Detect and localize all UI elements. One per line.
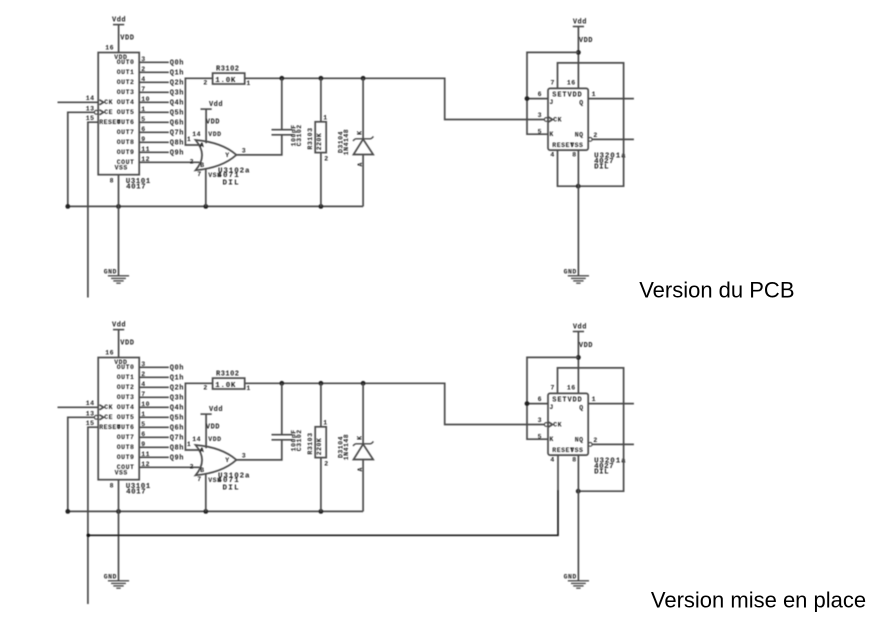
svg-text:Q4h: Q4h bbox=[170, 405, 184, 413]
svg-text:VDD: VDD bbox=[208, 131, 221, 138]
svg-text:Q0h: Q0h bbox=[170, 60, 184, 68]
svg-text:OUT1: OUT1 bbox=[117, 69, 135, 76]
power Vdd supply (U3201a) bbox=[573, 323, 593, 393]
OR gate U3102a 4071 bbox=[190, 445, 251, 493]
svg-text:Version du PCB: Version du PCB bbox=[639, 278, 794, 303]
svg-text:CE: CE bbox=[104, 414, 113, 421]
svg-text:OUT9: OUT9 bbox=[117, 149, 135, 156]
wire COUT pin12 to gate input B bbox=[139, 161, 199, 163]
svg-text:OUT8: OUT8 bbox=[117, 139, 135, 146]
wire CK pin14 stub bbox=[58, 101, 99, 103]
wire NQ pin2 stub bbox=[592, 138, 634, 140]
svg-text:CK: CK bbox=[104, 404, 113, 411]
wire Q pin1 stub bbox=[588, 403, 634, 405]
svg-text:1: 1 bbox=[592, 91, 596, 98]
svg-text:SETVDD: SETVDD bbox=[552, 397, 582, 405]
svg-text:8: 8 bbox=[572, 457, 576, 464]
resistor R3102 1.0K bbox=[203, 66, 250, 88]
svg-text:OUT5: OUT5 bbox=[117, 109, 135, 116]
svg-text:1: 1 bbox=[187, 136, 191, 143]
svg-text:OUT0: OUT0 bbox=[117, 364, 135, 371]
svg-text:OUT5: OUT5 bbox=[117, 414, 135, 421]
svg-text:A: A bbox=[200, 447, 204, 454]
wire RESET pin4 modification (black) to 4017 RESET bbox=[87, 455, 559, 537]
svg-text:4017: 4017 bbox=[126, 184, 146, 192]
wire R3102 pin2 to gate input A bbox=[185, 78, 212, 145]
svg-text:6: 6 bbox=[538, 396, 542, 403]
svg-text:14: 14 bbox=[86, 400, 95, 407]
svg-text:4: 4 bbox=[550, 152, 554, 159]
svg-text:RESET: RESET bbox=[99, 424, 121, 431]
svg-text:VDD: VDD bbox=[120, 34, 134, 42]
OR gate U3102a 4071 bbox=[190, 140, 251, 188]
ground symbol GND (4017) bbox=[104, 269, 129, 284]
svg-text:2: 2 bbox=[203, 385, 207, 392]
svg-text:GND: GND bbox=[564, 269, 577, 276]
svg-text:SETVDD: SETVDD bbox=[552, 92, 582, 100]
svg-text:K: K bbox=[549, 436, 553, 443]
svg-text:4017: 4017 bbox=[126, 489, 146, 497]
wire CE pin13 to ground bus bbox=[68, 417, 95, 511]
svg-text:2: 2 bbox=[190, 158, 194, 165]
svg-text:Y: Y bbox=[225, 457, 229, 464]
svg-text:NQ: NQ bbox=[575, 132, 584, 139]
svg-text:OUT7: OUT7 bbox=[117, 434, 135, 441]
svg-text:Q3h: Q3h bbox=[170, 395, 184, 403]
svg-text:1: 1 bbox=[187, 441, 191, 448]
svg-text:2: 2 bbox=[190, 463, 194, 470]
wire CE pin13 to ground bus bbox=[68, 112, 95, 206]
svg-text:Q6h: Q6h bbox=[170, 120, 184, 128]
svg-text:3: 3 bbox=[538, 112, 542, 119]
svg-text:CE: CE bbox=[104, 109, 113, 116]
ground symbol GND (4027) bbox=[564, 574, 589, 589]
IC U3201a 4027 JK flip-flop bbox=[538, 385, 627, 477]
svg-text:1: 1 bbox=[323, 419, 327, 426]
wire VSS pin8 to ground bbox=[577, 150, 579, 276]
wire Q pin1 stub bbox=[588, 98, 634, 100]
svg-text:Y: Y bbox=[225, 152, 229, 159]
ground bus wire bbox=[65, 204, 363, 209]
svg-text:K: K bbox=[549, 131, 553, 138]
wires Q0h..Q9h output stubs with net labels bbox=[139, 365, 184, 463]
svg-text:B: B bbox=[200, 467, 204, 474]
wires Q0h..Q9h output stubs with net labels bbox=[139, 60, 184, 158]
wire gate output Y pin3 up to capacitor bbox=[236, 440, 281, 460]
svg-text:A: A bbox=[200, 142, 204, 149]
wire NQ pin2 stub bbox=[592, 443, 634, 445]
svg-text:R3103: R3103 bbox=[307, 127, 314, 149]
svg-text:3: 3 bbox=[538, 417, 542, 424]
svg-text:OUT4: OUT4 bbox=[117, 404, 135, 411]
svg-text:CK: CK bbox=[553, 117, 562, 124]
ground symbol GND (4027) bbox=[564, 269, 589, 284]
svg-text:RESET: RESET bbox=[99, 119, 121, 126]
svg-text:K: K bbox=[356, 130, 363, 134]
svg-text:7: 7 bbox=[551, 80, 555, 87]
svg-text:13: 13 bbox=[86, 105, 95, 112]
power Vdd supply (U3101 bottom) bbox=[112, 321, 134, 357]
svg-text:VSS: VSS bbox=[570, 447, 583, 454]
svg-text:Q7h: Q7h bbox=[170, 130, 184, 138]
svg-text:VDD: VDD bbox=[206, 119, 220, 127]
svg-text:Q8h: Q8h bbox=[170, 140, 184, 148]
svg-text:R3102: R3102 bbox=[216, 66, 240, 74]
wire COUT pin12 to gate input B bbox=[139, 466, 199, 468]
svg-text:VSS: VSS bbox=[115, 470, 128, 477]
svg-text:OUT1: OUT1 bbox=[117, 374, 135, 381]
svg-text:Q5h: Q5h bbox=[170, 110, 184, 118]
svg-text:1.0K: 1.0K bbox=[215, 77, 236, 85]
capacitor C3102 100pF bbox=[272, 78, 303, 146]
svg-text:Q2h: Q2h bbox=[170, 385, 184, 393]
IC U3201a 4027 JK flip-flop bbox=[538, 80, 627, 172]
svg-text:VDD: VDD bbox=[206, 424, 220, 432]
wire R3102 pin1 net to flip-flop CK (with taps) bbox=[245, 381, 545, 425]
wire J/K tie to VDD bbox=[525, 52, 579, 134]
resistor R3103 220K bbox=[307, 383, 329, 511]
wire SET pin7 loop to VSS bbox=[558, 368, 624, 494]
power Vdd supply (U3101) bbox=[112, 16, 134, 52]
svg-text:15: 15 bbox=[86, 115, 95, 122]
svg-text:Vdd: Vdd bbox=[112, 16, 126, 24]
power Vdd supply (U3201a) bbox=[573, 18, 593, 88]
svg-text:2: 2 bbox=[324, 460, 328, 467]
svg-text:C3102: C3102 bbox=[296, 429, 303, 451]
svg-text:Version mise en place: Version mise en place bbox=[651, 587, 866, 612]
svg-text:2: 2 bbox=[593, 132, 597, 139]
svg-text:Vdd: Vdd bbox=[209, 101, 223, 109]
svg-text:Q8h: Q8h bbox=[170, 445, 184, 453]
svg-text:220K: 220K bbox=[316, 133, 323, 151]
svg-text:J: J bbox=[549, 404, 553, 411]
svg-text:13: 13 bbox=[86, 410, 95, 417]
svg-text:OUT8: OUT8 bbox=[117, 444, 135, 451]
svg-text:16: 16 bbox=[567, 80, 576, 87]
wire VSS pin8 to ground bbox=[577, 455, 579, 581]
svg-text:14: 14 bbox=[192, 436, 201, 443]
ground bus wire bbox=[65, 509, 363, 514]
svg-text:Vdd: Vdd bbox=[209, 406, 223, 414]
svg-text:VDD: VDD bbox=[579, 37, 593, 45]
IC U3101 4017 decade counter bbox=[86, 44, 151, 191]
svg-text:1: 1 bbox=[246, 385, 250, 392]
svg-text:B: B bbox=[200, 162, 204, 169]
svg-text:OUT2: OUT2 bbox=[117, 79, 135, 86]
svg-text:NQ: NQ bbox=[575, 437, 584, 444]
svg-text:7: 7 bbox=[197, 171, 201, 178]
wire R3102 pin2 to gate input A bbox=[185, 383, 212, 450]
svg-text:GND: GND bbox=[104, 574, 117, 581]
svg-text:8: 8 bbox=[572, 152, 576, 159]
svg-text:Vdd: Vdd bbox=[112, 321, 126, 329]
svg-text:Q5h: Q5h bbox=[170, 415, 184, 423]
svg-text:OUT2: OUT2 bbox=[117, 384, 135, 391]
svg-text:2: 2 bbox=[203, 80, 207, 87]
wire VSS pin8 to ground bbox=[118, 175, 120, 276]
svg-text:1: 1 bbox=[592, 396, 596, 403]
svg-text:5: 5 bbox=[538, 433, 542, 440]
wire J/K tie to VDD bbox=[525, 357, 579, 439]
svg-text:2: 2 bbox=[324, 155, 328, 162]
svg-text:220K: 220K bbox=[316, 438, 323, 456]
wire CK pin14 stub bbox=[58, 406, 99, 408]
wire R3102 pin1 net to flip-flop CK (with taps) bbox=[245, 76, 545, 120]
wire RESET pin15 stub going down (cut off) bbox=[88, 122, 98, 297]
svg-text:Vdd: Vdd bbox=[573, 18, 587, 26]
svg-text:Q0h: Q0h bbox=[170, 365, 184, 373]
svg-text:Q7h: Q7h bbox=[170, 435, 184, 443]
svg-text:6: 6 bbox=[538, 91, 542, 98]
svg-text:GND: GND bbox=[104, 269, 117, 276]
svg-text:DIL: DIL bbox=[594, 163, 609, 171]
wire SET pin7 / RESET pin4 loop to VSS bbox=[558, 63, 624, 189]
svg-text:8: 8 bbox=[110, 178, 114, 185]
svg-text:14: 14 bbox=[192, 131, 201, 138]
svg-text:1N4148: 1N4148 bbox=[343, 434, 350, 460]
svg-text:Q6h: Q6h bbox=[170, 425, 184, 433]
svg-text:OUT0: OUT0 bbox=[117, 59, 135, 66]
svg-text:Q2h: Q2h bbox=[170, 80, 184, 88]
svg-text:DIL: DIL bbox=[223, 180, 240, 188]
wire RESET pin15 long vertical bbox=[88, 427, 98, 604]
svg-text:Q9h: Q9h bbox=[170, 150, 184, 158]
svg-text:Vdd: Vdd bbox=[573, 323, 587, 331]
svg-text:1N4148: 1N4148 bbox=[343, 129, 350, 155]
svg-text:1: 1 bbox=[323, 114, 327, 121]
svg-text:3: 3 bbox=[242, 452, 246, 459]
svg-text:K: K bbox=[356, 435, 363, 439]
svg-text:VDD: VDD bbox=[208, 436, 221, 443]
svg-text:OUT9: OUT9 bbox=[117, 454, 135, 461]
svg-text:16: 16 bbox=[105, 44, 114, 51]
svg-text:OUT7: OUT7 bbox=[117, 129, 135, 136]
svg-text:5: 5 bbox=[538, 128, 542, 135]
svg-text:CK: CK bbox=[553, 422, 562, 429]
svg-text:16: 16 bbox=[567, 385, 576, 392]
svg-text:Q1h: Q1h bbox=[170, 375, 184, 383]
svg-text:3: 3 bbox=[242, 147, 246, 154]
svg-text:R3102: R3102 bbox=[216, 371, 240, 379]
svg-text:J: J bbox=[549, 99, 553, 106]
wire gate output Y pin3 up to capacitor bbox=[236, 135, 281, 155]
svg-text:VSS: VSS bbox=[570, 142, 583, 149]
svg-text:DIL: DIL bbox=[594, 468, 609, 476]
svg-text:1: 1 bbox=[246, 80, 250, 87]
svg-text:1.0K: 1.0K bbox=[215, 382, 236, 390]
svg-text:GND: GND bbox=[564, 574, 577, 581]
svg-text:Q1h: Q1h bbox=[170, 70, 184, 78]
wire VSS pin8 to ground bbox=[118, 480, 120, 581]
svg-text:4: 4 bbox=[550, 457, 554, 464]
power Vdd supply (gate U3102a) bbox=[192, 101, 223, 143]
svg-text:15: 15 bbox=[86, 420, 95, 427]
diode D3104 1N4148 bbox=[338, 78, 374, 206]
svg-text:Q: Q bbox=[579, 99, 583, 106]
svg-text:7: 7 bbox=[197, 476, 201, 483]
IC U3101 4017 decade counter (copy 2) bbox=[86, 349, 151, 496]
svg-text:VDD: VDD bbox=[579, 342, 593, 350]
svg-text:C3102: C3102 bbox=[296, 124, 303, 146]
svg-text:Q: Q bbox=[579, 404, 583, 411]
svg-text:DIL: DIL bbox=[223, 485, 240, 493]
svg-text:A: A bbox=[357, 467, 364, 471]
svg-text:OUT4: OUT4 bbox=[117, 99, 135, 106]
svg-text:16: 16 bbox=[105, 349, 114, 356]
svg-text:VDD: VDD bbox=[120, 339, 134, 347]
capacitor C3102 100pF bbox=[272, 383, 303, 451]
svg-text:R3103: R3103 bbox=[307, 432, 314, 454]
svg-text:14: 14 bbox=[86, 95, 95, 102]
svg-text:2: 2 bbox=[593, 437, 597, 444]
ground symbol GND (4017) bbox=[104, 574, 129, 589]
power Vdd supply (gate U3102a) bbox=[192, 406, 223, 448]
wire gate pin7 VSS to ground bus bbox=[205, 169, 207, 207]
svg-text:Q9h: Q9h bbox=[170, 455, 184, 463]
svg-text:7: 7 bbox=[551, 385, 555, 392]
resistor R3103 220K bbox=[307, 78, 329, 206]
svg-text:A: A bbox=[357, 162, 364, 166]
svg-text:VSS: VSS bbox=[115, 165, 128, 172]
svg-text:Q3h: Q3h bbox=[170, 90, 184, 98]
svg-text:8: 8 bbox=[110, 483, 114, 490]
svg-text:Q4h: Q4h bbox=[170, 100, 184, 108]
diode D3104 1N4148 bbox=[338, 383, 374, 511]
svg-text:CK: CK bbox=[104, 99, 113, 106]
svg-text:OUT3: OUT3 bbox=[117, 394, 135, 401]
resistor R3102 1.0K bbox=[203, 371, 250, 393]
wire gate pin7 VSS to ground bus bbox=[205, 474, 207, 512]
svg-text:OUT3: OUT3 bbox=[117, 89, 135, 96]
